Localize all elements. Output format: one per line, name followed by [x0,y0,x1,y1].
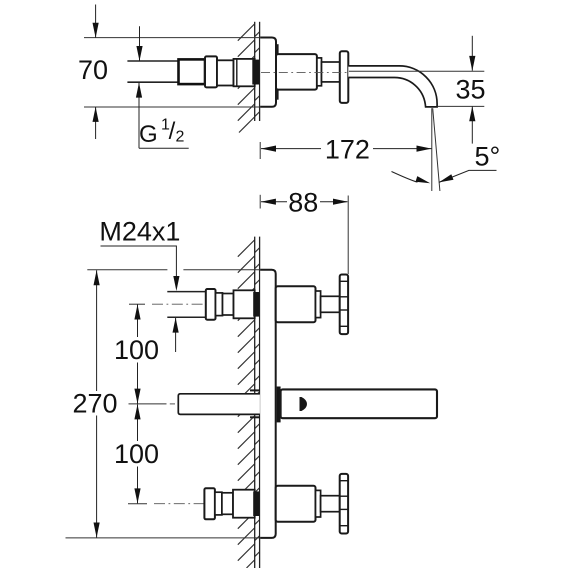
water stream 5 degree line [433,108,440,191]
lower handle stem [321,496,340,512]
dimension 100 lower [137,404,139,503]
escutcheon (top view) [260,39,275,106]
svg-text:100: 100 [114,439,159,469]
wall hatching (top view) [238,24,259,133]
svg-text:2: 2 [176,129,185,146]
G1/2 label leader [139,26,189,148]
lower nipple wall block [233,490,255,518]
spout neck (top view) [322,62,340,82]
centreline (top view) [261,72,347,74]
lower nipple neck [215,492,222,515]
water stream vertical reference line [431,108,433,191]
spout supply stub behind wall [178,394,260,415]
upper handle body [276,286,316,322]
svg-text:G: G [139,121,158,148]
svg-text:100: 100 [114,335,159,365]
lower handle step ring [316,490,321,517]
M24x1 thread lines (upper nipple) [167,292,206,318]
dimension 100 upper [137,305,139,404]
svg-text:172: 172 [325,135,370,165]
upper nipple wall block [234,290,255,318]
G1/2 supply pipe (top view) [127,61,178,82]
wall hatching (plan view) [238,240,259,568]
upper nipple neck [216,293,223,316]
centreline extension right (35 dim reference) [349,70,484,72]
spout bar (plan view) [281,389,437,418]
5 degree leader [439,170,497,182]
lower nipple cylinder [222,493,233,515]
lower handle centreline [128,503,147,505]
svg-text:35: 35 [455,74,485,104]
dimension 88 extension lines [259,195,261,209]
nipple flange (top view) [205,56,217,87]
outlet level extension line [438,105,485,107]
mousseur mark on spout [300,397,308,411]
upper nipple flange [206,289,216,320]
dimension 172 [261,148,432,150]
lower handle disc [340,474,348,534]
svg-text:270: 270 [72,389,117,419]
svg-text:88: 88 [288,188,318,218]
wall plate (plan view) [260,271,274,537]
svg-text:M24x1: M24x1 [99,217,180,247]
dimension 35 [471,36,473,144]
spout disc flange (top view) [340,51,349,103]
upper handle step ring [316,291,321,318]
nipple middle cylinder (top view) [217,60,234,85]
G1/2 label [139,117,185,149]
dimension 70 [95,5,97,140]
5 degree angle arc left [392,172,418,183]
upper handle centreline [129,303,145,305]
spout centreline (plan view) [129,403,167,405]
upper handle disc [340,275,348,335]
spout tube with curved outlet (top view) [348,66,437,107]
upper handle stem [321,296,340,312]
dark gap at wall (lower handle) [253,491,259,516]
wall lines (plan view) [255,237,260,568]
svg-text:70: 70 [78,55,108,85]
body lip marks (top view) [276,44,278,99]
svg-text:5°: 5° [475,141,501,171]
dimension 70 extension lines [84,38,260,107]
dark gap at wall (upper handle) [253,292,259,317]
spout base ring (plan view) [277,387,281,423]
dark gap at wall (top view) [252,60,259,85]
spout bar edges through wall [250,390,260,417]
dimension 270 [96,270,98,537]
dimension 270 extension lines [66,270,260,538]
dimension 172 extension line at wall [259,142,261,159]
lower handle body [276,486,316,522]
lower nipple flange [204,488,215,519]
step ring (top view) [317,58,322,86]
wall lines (top view) [255,22,260,121]
dimension 88 [261,201,347,203]
nipple wall block (top view) [234,59,255,86]
upper nipple cylinder [223,294,234,316]
spout body (top view) [276,54,317,90]
G1/2 nipple cylinder (top view) [179,59,206,84]
